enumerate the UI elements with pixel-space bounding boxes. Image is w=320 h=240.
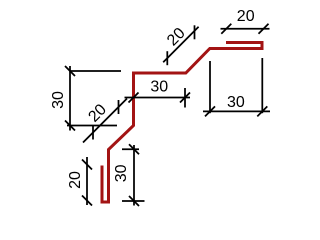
D8 extension line top	[122, 148, 139, 150]
D1 extension line bottom	[67, 125, 117, 127]
D4 tick right	[259, 24, 269, 34]
D1 tick top	[65, 66, 75, 76]
D8 dimension line	[133, 145, 135, 206]
svg-text:20: 20	[67, 171, 84, 189]
D7 dimension line	[83, 99, 127, 143]
D4 tick left	[221, 24, 231, 34]
dimension D4: top horizontal 20	[221, 24, 270, 34]
D6 tick top	[82, 160, 92, 170]
D3 tick lower	[166, 51, 168, 65]
D3 dimension line	[163, 27, 198, 62]
dimension D8: bottom-right vertical 30	[122, 144, 145, 206]
D6 tick bottom	[82, 196, 92, 206]
D4 dimension line	[221, 28, 270, 30]
D1 dimension line	[69, 66, 71, 131]
D2 tick right	[180, 93, 190, 103]
svg-text:30: 30	[150, 79, 168, 96]
svg-text:20: 20	[85, 101, 110, 126]
dimension D1: left vertical 30	[65, 66, 121, 131]
dimension D5: right horizontal 30	[203, 58, 270, 116]
D7 tick lower	[92, 126, 94, 140]
dimension D6: bottom-left vertical 20	[82, 157, 92, 206]
D6 dimension line	[86, 157, 88, 205]
svg-text:30: 30	[227, 94, 245, 111]
flashing profile (red sheet metal bend)	[102, 43, 262, 203]
D1 tick bottom	[65, 121, 75, 131]
D8 extension line bottom	[122, 200, 145, 202]
D8 tick bottom	[129, 196, 139, 206]
svg-text:20: 20	[164, 25, 189, 50]
D2 dimension line	[125, 97, 191, 99]
D2 tick left	[129, 93, 139, 103]
dimension D3: upper diagonal 20	[163, 25, 198, 65]
D5 dimension line	[203, 110, 270, 112]
D3 tick upper	[194, 25, 196, 39]
D2 extension line right	[184, 88, 186, 108]
svg-text:20: 20	[237, 8, 255, 25]
dimension D2: middle horizontal 30	[125, 88, 191, 108]
svg-text:30: 30	[50, 91, 67, 109]
D1 extension line top	[70, 70, 121, 72]
D5 extension line right	[261, 58, 263, 113]
D5 extension line left	[209, 61, 211, 113]
svg-text:30: 30	[113, 164, 130, 182]
D8 tick top	[129, 144, 139, 154]
dimension D7: lower diagonal 20	[83, 99, 127, 143]
D5 tick right	[257, 106, 267, 116]
D5 tick left	[205, 106, 215, 116]
D7 tick upper	[118, 100, 120, 114]
